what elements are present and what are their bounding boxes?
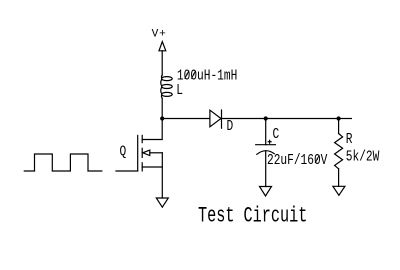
node A junction dot <box>160 116 164 120</box>
ground (MOSFET source) <box>156 198 168 207</box>
svg-text:5k/2W: 5k/2W <box>346 148 380 165</box>
wire gate lead <box>116 170 138 172</box>
svg-text:Test Circuit: Test Circuit <box>198 203 307 229</box>
wire MOSFET source to ground <box>161 153 163 198</box>
label C <box>273 126 280 143</box>
node C junction dot <box>264 116 268 120</box>
slashed zeros in 100uH-1mH <box>185 71 189 78</box>
svg-text:D: D <box>227 118 234 135</box>
wire inductor to node A <box>161 99 163 119</box>
capacitor C (polarized) <box>256 145 276 155</box>
ground (capacitor) <box>260 187 272 197</box>
wire node C down to capacitor <box>265 119 267 145</box>
svg-text:L: L <box>176 81 183 98</box>
svg-text:22uF/160V: 22uF/160V <box>267 151 327 168</box>
label R <box>346 131 353 148</box>
label L <box>176 81 183 98</box>
wire diode cathode to node C <box>222 118 266 120</box>
node R junction dot <box>337 116 341 120</box>
transistor Q (N-MOSFET) <box>138 135 163 171</box>
svg-text:C: C <box>273 126 280 143</box>
svg-text:Q: Q <box>120 143 127 160</box>
wire V+ arrow to inductor <box>161 51 163 75</box>
wire node A to diode anode <box>162 118 210 120</box>
wire capacitor to ground <box>265 151 267 187</box>
svg-text:V+: V+ <box>152 29 167 41</box>
title Test Circuit <box>198 203 307 229</box>
square-wave input signal <box>24 154 102 171</box>
diode D <box>210 110 222 128</box>
value 5k/2W <box>346 148 380 165</box>
value 22uF/160V <box>267 151 327 168</box>
wire resistor to ground <box>338 169 340 187</box>
V+ supply arrow <box>159 42 166 51</box>
capacitor plus mark <box>268 140 271 143</box>
resistor R zigzag <box>335 134 343 169</box>
wire stub right of node R <box>339 118 352 120</box>
wire node A down to MOSFET drain <box>142 119 162 140</box>
wire node R down to resistor <box>338 119 340 134</box>
label 100uH-1mH <box>177 67 237 84</box>
svg-text:R: R <box>346 131 353 148</box>
label D <box>227 118 234 135</box>
wire node C to node R <box>266 118 339 120</box>
ground (resistor) <box>333 186 345 195</box>
label Q <box>120 143 127 160</box>
slashed zero in 160V <box>315 156 319 163</box>
inductor L1 coil <box>161 75 172 99</box>
node V+ label <box>152 29 167 41</box>
